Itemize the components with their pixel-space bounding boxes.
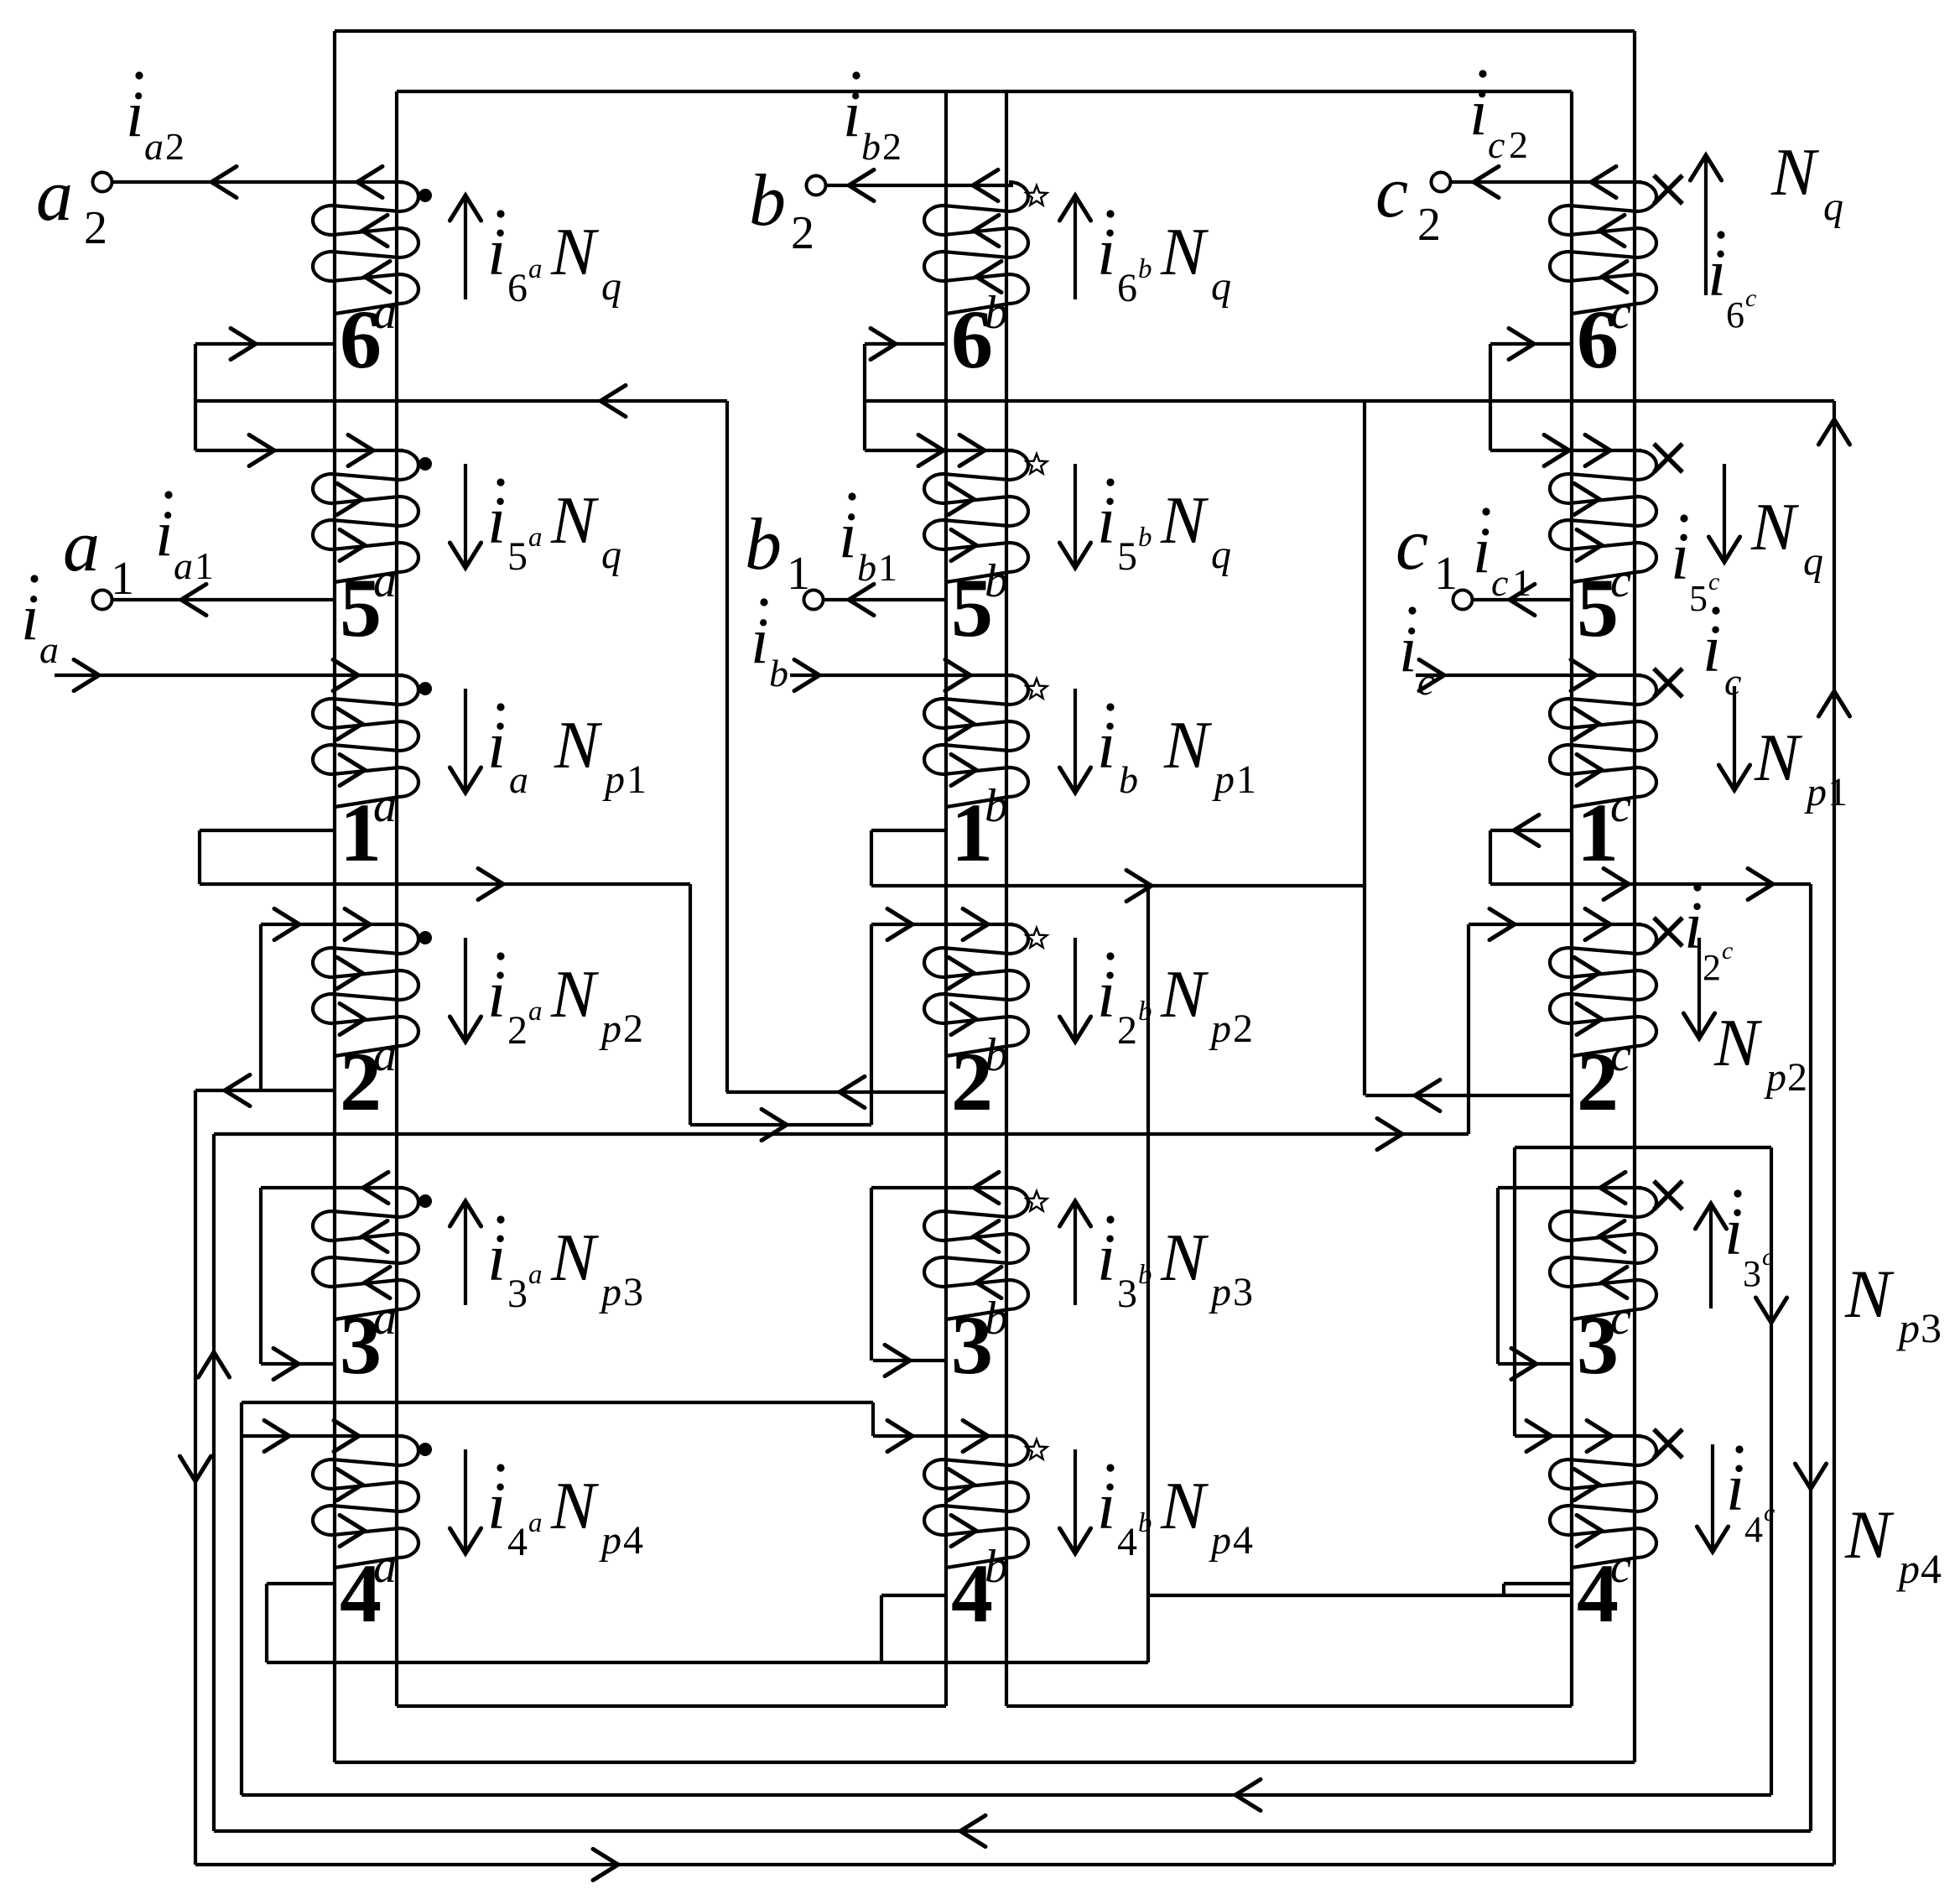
wire vertical x1369 <box>1146 886 1150 1662</box>
wire jog vertical b <box>863 344 866 450</box>
wire y1672 feed to 4b <box>242 1401 873 1404</box>
svg-text:c: c <box>1375 152 1408 233</box>
winding coil 3^c <box>1550 1188 1656 1319</box>
svg-text:2: 2 <box>623 1007 643 1051</box>
wire 1c exit vertical <box>1489 830 1492 884</box>
wire rail bottoms y2034 left <box>397 1704 946 1708</box>
svg-text:a: a <box>528 254 543 284</box>
winding coil 1^a <box>313 675 419 807</box>
winding coil 4^a <box>313 1436 419 1568</box>
svg-text:q: q <box>1211 264 1231 309</box>
svg-text:i: i <box>1469 75 1488 148</box>
terminal b1 <box>804 591 824 610</box>
current label i_3a N_p3 <box>464 1201 467 1305</box>
polarity mark 6^a <box>419 189 432 202</box>
wire 1a exit vertical <box>198 830 201 884</box>
winding coil 6^a <box>313 182 419 314</box>
wire 3b top loop <box>871 1186 1013 1189</box>
svg-text:3: 3 <box>1233 1270 1253 1314</box>
svg-text:1: 1 <box>111 553 134 605</box>
svg-text:q: q <box>601 533 621 577</box>
svg-text:3: 3 <box>623 1270 643 1314</box>
wire rail bottoms y2034 right <box>1006 1704 1572 1708</box>
wire 3c bottom stub <box>1498 1362 1572 1366</box>
svg-text:i: i <box>1097 216 1115 289</box>
svg-text:2: 2 <box>1509 123 1528 166</box>
wire top outer <box>335 29 1635 33</box>
wire 2b bottom exit <box>726 1090 946 1094</box>
svg-text:c: c <box>1610 780 1631 832</box>
svg-text:b: b <box>985 1541 1008 1593</box>
wire 4b feed vertical <box>871 1402 875 1436</box>
svg-text:3: 3 <box>1743 1253 1761 1294</box>
svg-text:3: 3 <box>507 1272 528 1316</box>
wire bottom bus y2223 <box>195 1863 1834 1866</box>
svg-text:6: 6 <box>1726 294 1744 336</box>
wire into winding 5a top <box>195 449 403 452</box>
current label i_3b N_p3 <box>1074 1201 1077 1305</box>
svg-text:N: N <box>1160 216 1209 289</box>
svg-text:2: 2 <box>84 202 107 254</box>
svg-text:N: N <box>550 1221 600 1295</box>
svg-text:i: i <box>1097 709 1115 783</box>
current label i_5c N_q <box>1723 464 1726 562</box>
current label i_2a N_p2 <box>464 938 467 1042</box>
svg-text:N: N <box>1754 721 1803 795</box>
wire vertical x233 to bottom <box>194 1090 197 1865</box>
winding coil 2^b <box>924 924 1028 1056</box>
core rail a-right <box>395 91 398 1706</box>
winding coil 1^b <box>924 675 1028 807</box>
wire jog into 6c bottom <box>1490 342 1572 346</box>
svg-text:3: 3 <box>1117 1272 1137 1316</box>
svg-text:3: 3 <box>1921 1304 1942 1351</box>
svg-text:1: 1 <box>787 548 810 600</box>
current label N_q / i_6c <box>1704 155 1708 295</box>
svg-text:1: 1 <box>878 546 897 589</box>
core rail a-left <box>333 31 336 1762</box>
wire jog vertical a <box>194 344 197 450</box>
svg-text:N: N <box>1713 1007 1763 1080</box>
wire 3c top loop <box>1498 1186 1641 1189</box>
wire 3a bottom stub <box>261 1362 335 1366</box>
polarity mark 2^b <box>1027 928 1048 948</box>
polarity mark 4^c <box>1654 1429 1682 1458</box>
current label i_2b N_p2 <box>1074 938 1077 1042</box>
svg-text:b: b <box>985 287 1008 339</box>
winding coil 2^a <box>313 924 419 1056</box>
svg-text:i: i <box>487 709 506 783</box>
svg-text:a: a <box>174 544 193 587</box>
svg-text:i: i <box>487 1470 506 1543</box>
svg-text:a: a <box>63 506 100 587</box>
svg-text:i: i <box>1097 484 1115 558</box>
current label i_4a N_p4 <box>464 1449 467 1553</box>
svg-text:b: b <box>985 555 1008 607</box>
terminal b2 <box>807 176 826 195</box>
svg-text:N: N <box>1844 1496 1895 1573</box>
winding coil 5^a <box>313 450 419 582</box>
wire node at y478 segment 2 <box>865 399 1834 403</box>
svg-text:i: i <box>1726 1451 1744 1525</box>
svg-text:p: p <box>1209 1518 1231 1563</box>
svg-text:4: 4 <box>1921 1545 1942 1592</box>
svg-text:i: i <box>487 216 506 289</box>
wire jog into 6a bottom <box>195 342 335 346</box>
svg-text:i: i <box>1671 520 1689 594</box>
svg-text:1: 1 <box>1827 770 1848 814</box>
svg-text:i: i <box>751 604 769 677</box>
svg-text:N: N <box>1844 1256 1895 1332</box>
svg-text:a: a <box>373 287 397 339</box>
polarity mark 5^a <box>419 457 432 471</box>
polarity mark 5^b <box>1027 454 1048 474</box>
svg-text:a: a <box>373 780 397 832</box>
svg-text:i: i <box>155 497 174 570</box>
svg-text:N: N <box>550 958 600 1032</box>
svg-text:c: c <box>1722 937 1733 965</box>
wire node at y478 segment 1 <box>195 399 727 403</box>
wire vertical x2112 <box>1770 1147 1773 1795</box>
wire vertical x823 <box>689 884 692 1125</box>
current label i_b N_p1 <box>1074 689 1077 793</box>
svg-text:p: p <box>602 757 625 802</box>
svg-text:p: p <box>1896 1545 1920 1592</box>
wire b2 to winding 6b <box>825 184 1013 187</box>
polarity mark 5^c <box>1654 444 1682 472</box>
svg-text:q: q <box>1803 539 1823 584</box>
polarity mark 1^b <box>1027 679 1048 699</box>
wire bottom bus y2183 <box>214 1829 1811 1833</box>
winding coil 6^b <box>924 182 1028 314</box>
svg-text:N: N <box>1160 1221 1209 1295</box>
svg-text:c: c <box>1610 555 1631 607</box>
wire 2c feed vertical <box>1467 924 1470 1134</box>
svg-text:i: i <box>1399 612 1417 685</box>
core rail c-right <box>1633 31 1636 1762</box>
svg-text:i: i <box>1097 1221 1115 1295</box>
wire 4c exit stub <box>1504 1582 1572 1585</box>
wire jog vertical c <box>1489 344 1492 450</box>
svg-text:4: 4 <box>623 1518 643 1563</box>
wire vertical x2159 right side <box>1809 884 1812 1831</box>
winding coil 3^b <box>924 1188 1028 1319</box>
wire y1982 <box>267 1661 1148 1664</box>
current label i_4c <box>1711 1444 1714 1552</box>
svg-text:1: 1 <box>195 544 214 587</box>
svg-text:b: b <box>1119 758 1138 801</box>
svg-text:4: 4 <box>1233 1518 1253 1563</box>
svg-text:1: 1 <box>1236 757 1256 802</box>
wire 2b feed vertical <box>870 924 873 1125</box>
polarity mark 6^c <box>1654 175 1682 204</box>
wire jog into 6b bottom <box>865 342 946 346</box>
svg-text:4: 4 <box>1117 1520 1137 1564</box>
svg-text:c: c <box>1610 1293 1631 1345</box>
wire 4a exit stub <box>267 1582 335 1585</box>
current label i_3c <box>1709 1204 1713 1308</box>
wire 1c exit horizontal <box>1490 882 1811 886</box>
svg-text:c: c <box>1764 1499 1775 1527</box>
wire a2 to winding 6a <box>112 180 403 184</box>
wire 2a feed vertical <box>259 924 263 1090</box>
wire bottom bus y2140 <box>242 1793 1771 1797</box>
wire into winding 2b top <box>871 923 1013 926</box>
svg-text:2: 2 <box>165 125 185 168</box>
svg-text:i: i <box>1097 1470 1115 1543</box>
svg-text:b: b <box>749 160 786 242</box>
terminal a1 <box>93 591 112 610</box>
svg-text:N: N <box>550 216 600 289</box>
terminal a2 <box>93 173 112 192</box>
svg-text:i: i <box>487 958 506 1032</box>
svg-text:a: a <box>144 125 164 168</box>
svg-text:i: i <box>1097 958 1115 1032</box>
svg-text:2: 2 <box>882 125 902 168</box>
svg-text:4: 4 <box>507 1520 528 1564</box>
svg-text:i: i <box>487 1221 506 1295</box>
svg-text:i: i <box>1724 1195 1743 1269</box>
wire vertical x2187 right side <box>1833 401 1836 1865</box>
svg-text:b: b <box>985 1293 1008 1345</box>
svg-text:b: b <box>985 780 1008 832</box>
wire i_c into winding 1c <box>1416 674 1641 677</box>
wire i_a into winding 1a <box>55 674 403 677</box>
svg-text:2: 2 <box>1787 1055 1807 1100</box>
svg-text:b: b <box>985 1029 1008 1081</box>
polarity mark 6^b <box>1027 185 1048 206</box>
svg-text:2: 2 <box>1233 1007 1253 1051</box>
svg-text:N: N <box>1160 484 1209 558</box>
svg-text:N: N <box>550 484 600 558</box>
wire vertical x255 <box>212 1134 216 1831</box>
winding coil 4^c <box>1550 1436 1656 1568</box>
svg-text:p: p <box>1764 1055 1786 1100</box>
svg-text:2: 2 <box>1703 947 1721 988</box>
polarity mark 1^a <box>419 682 432 695</box>
svg-text:a: a <box>528 1508 543 1538</box>
wire into winding 5c top <box>1490 449 1641 452</box>
svg-text:6: 6 <box>507 266 528 310</box>
svg-text:N: N <box>1160 958 1209 1032</box>
wire into winding 4b top <box>873 1434 1013 1438</box>
wire into winding 4a top <box>242 1434 403 1438</box>
winding coil 4^b <box>924 1436 1028 1568</box>
svg-text:i: i <box>839 498 857 571</box>
svg-text:i: i <box>843 77 861 150</box>
svg-text:i: i <box>1708 237 1726 310</box>
winding coil 6^c <box>1550 182 1656 314</box>
svg-text:p: p <box>1896 1304 1920 1351</box>
polarity mark 2^c <box>1654 918 1682 946</box>
svg-text:c: c <box>1745 284 1756 312</box>
svg-text:a: a <box>373 1541 397 1593</box>
wire into winding 4c top <box>1515 1434 1641 1438</box>
svg-text:p: p <box>599 1007 621 1051</box>
core rail c-left <box>1570 91 1573 1706</box>
current label i_5a N_q <box>464 464 467 568</box>
svg-text:i: i <box>1473 513 1491 586</box>
svg-text:2: 2 <box>507 1008 528 1053</box>
current label i_5b N_q <box>1074 464 1077 568</box>
polarity mark 3^b <box>1027 1191 1048 1211</box>
svg-text:p: p <box>1209 1007 1231 1051</box>
wire c2 to winding 6c <box>1450 180 1641 184</box>
current label i_6b N_q <box>1074 195 1077 299</box>
svg-text:a: a <box>39 628 59 671</box>
wire 4b exit stub <box>881 1594 946 1597</box>
svg-text:N: N <box>550 1470 600 1543</box>
svg-text:a: a <box>373 1293 397 1345</box>
svg-text:N: N <box>1770 136 1820 210</box>
wire y1368 to right side <box>1515 1146 1771 1149</box>
svg-text:p: p <box>1212 757 1235 802</box>
wire 1b exit horizontal <box>871 884 1365 887</box>
wire 1a exit stub <box>200 829 335 832</box>
polarity mark 1^c <box>1654 669 1682 697</box>
svg-text:b: b <box>1138 254 1152 284</box>
wire 1c exit stub <box>1490 829 1572 832</box>
wire rail bottoms y2101 <box>335 1761 1635 1764</box>
svg-text:c: c <box>1491 561 1508 604</box>
svg-text:b: b <box>745 504 782 585</box>
svg-text:1: 1 <box>626 757 647 802</box>
wire 4c feed vertical <box>1513 1364 1516 1436</box>
polarity mark 3^a <box>419 1194 432 1208</box>
svg-text:p: p <box>1209 1270 1231 1314</box>
wire i_b into winding 1b <box>790 674 1013 677</box>
winding coil 5^c <box>1550 450 1656 582</box>
svg-text:i: i <box>1703 612 1721 686</box>
svg-text:5: 5 <box>507 534 528 579</box>
terminal c1 <box>1453 591 1473 610</box>
core rail b-left <box>944 91 948 1706</box>
svg-text:p: p <box>599 1270 621 1314</box>
wire 1b exit stub <box>871 829 946 832</box>
wire 3b bottom stub <box>873 1359 946 1362</box>
wire 2a bottom exit <box>195 1089 335 1092</box>
svg-text:a: a <box>528 1260 543 1290</box>
svg-text:i: i <box>126 77 144 150</box>
wire y1902 <box>1148 1594 1572 1597</box>
polarity mark 2^a <box>419 931 432 944</box>
winding coil 2^c <box>1550 924 1656 1056</box>
svg-text:b: b <box>861 125 881 168</box>
svg-text:c: c <box>1610 1029 1631 1081</box>
svg-text:5: 5 <box>1117 534 1137 579</box>
svg-text:2: 2 <box>1117 1008 1137 1053</box>
svg-text:1: 1 <box>1434 548 1458 600</box>
current label i_a N_p1 <box>464 689 467 793</box>
wire winding 5c to c1 <box>1472 598 1572 601</box>
svg-text:2: 2 <box>1417 199 1441 251</box>
svg-text:q: q <box>1211 533 1231 577</box>
wire top inner <box>397 90 1572 93</box>
wire vertical x867 (2b bottom to y478) <box>725 401 729 1092</box>
svg-text:2: 2 <box>791 207 814 259</box>
wire vertical x1806 (3c to y1368) <box>1513 1147 1516 1364</box>
winding coil 5^b <box>924 450 1028 582</box>
terminal c2 <box>1432 173 1451 192</box>
svg-text:c: c <box>1708 568 1719 596</box>
wire into winding 5b top <box>865 449 1013 452</box>
svg-text:a: a <box>373 555 397 607</box>
svg-text:a: a <box>528 523 543 553</box>
winding coil 1^c <box>1550 675 1656 807</box>
svg-text:q: q <box>1823 185 1843 229</box>
svg-text:a: a <box>509 758 528 801</box>
svg-text:i: i <box>21 580 39 653</box>
wire into winding 2c top <box>1469 923 1641 926</box>
wire y1341 to 2b feed <box>690 1123 871 1126</box>
wire 1b exit vertical <box>870 830 873 886</box>
svg-text:6: 6 <box>1117 266 1137 310</box>
wire vertical x1627 (2c bottom to y478) <box>1363 401 1366 1095</box>
svg-text:i: i <box>487 484 506 558</box>
polarity mark 4^b <box>1027 1439 1048 1459</box>
wire winding 5b to b1 <box>823 598 946 601</box>
svg-text:c: c <box>1396 504 1428 585</box>
svg-text:c: c <box>1488 123 1505 166</box>
polarity mark 3^c <box>1654 1181 1682 1210</box>
current label i_6a N_q <box>464 195 467 299</box>
svg-text:c: c <box>1610 1541 1631 1593</box>
core rail b-right <box>1005 91 1008 1706</box>
svg-text:N: N <box>1163 709 1213 783</box>
svg-text:b: b <box>1138 523 1152 553</box>
svg-text:N: N <box>1160 1470 1209 1543</box>
current label i_4b N_p4 <box>1074 1449 1077 1553</box>
wire y1352 feed to 2c <box>214 1132 1469 1136</box>
svg-text:p: p <box>599 1518 621 1563</box>
svg-text:4: 4 <box>1744 1509 1763 1550</box>
polarity mark 4^a <box>419 1443 432 1456</box>
wire vertical x288 <box>240 1402 243 1795</box>
wire into winding 2a top <box>261 923 403 926</box>
svg-text:N: N <box>554 709 603 783</box>
svg-text:a: a <box>36 155 73 237</box>
svg-text:p: p <box>1804 770 1827 814</box>
svg-text:c: c <box>1610 287 1631 339</box>
svg-text:b: b <box>769 652 788 695</box>
svg-text:a: a <box>528 996 543 1027</box>
winding coil 3^a <box>313 1188 419 1319</box>
wire 3a top loop <box>261 1186 403 1189</box>
svg-text:q: q <box>601 264 621 309</box>
wire 1a exit horizontal <box>200 882 690 886</box>
svg-text:N: N <box>1750 491 1800 564</box>
wire 2c bottom exit <box>1365 1094 1572 1097</box>
svg-text:a: a <box>373 1029 397 1081</box>
wire winding 5a to a1 <box>112 598 335 601</box>
